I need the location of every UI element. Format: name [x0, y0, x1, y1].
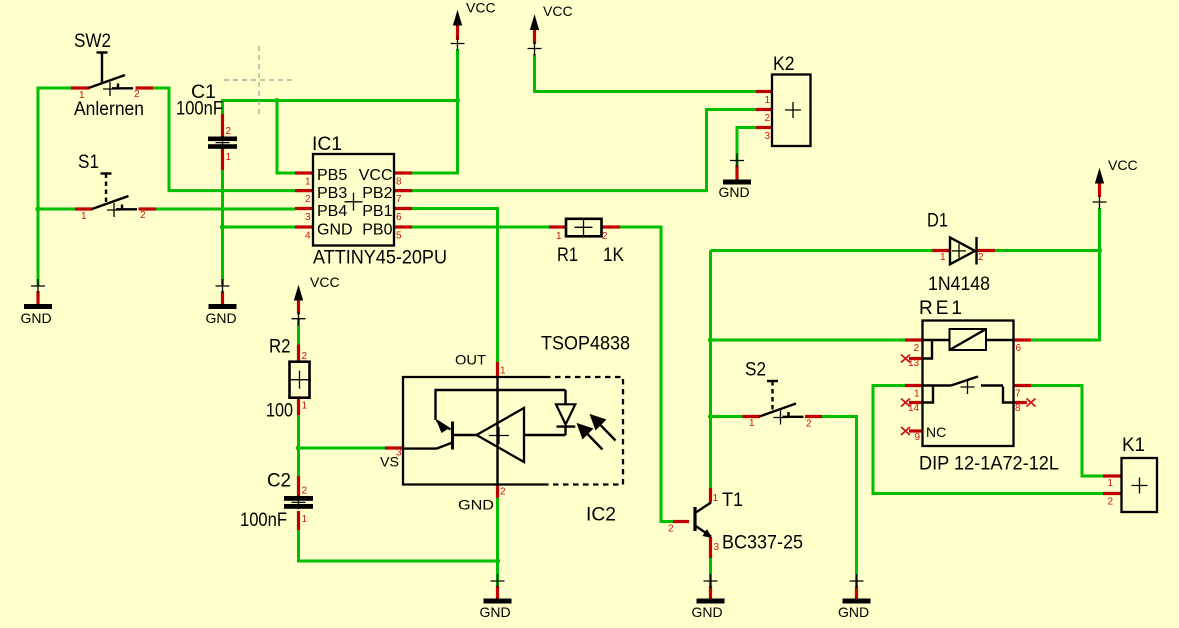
svg-text:PB3: PB3 — [317, 185, 347, 202]
svg-text:3: 3 — [764, 131, 770, 142]
node junction C2 / IC2 GND — [495, 558, 500, 563]
svg-text:GND: GND — [691, 604, 722, 620]
svg-text:1: 1 — [764, 95, 770, 106]
svg-text:D1: D1 — [927, 211, 948, 232]
svg-text:SW2: SW2 — [74, 31, 111, 52]
switch S1 pin 1 stub — [75, 207, 93, 210]
op IC1 pin 7 stub — [394, 189, 412, 192]
svg-text:100nF: 100nF — [176, 99, 223, 120]
connector K1 pin 1 stub — [1103, 474, 1122, 477]
capacitor C2 pin 1 stub — [297, 511, 300, 530]
ground GND K2 stem — [735, 165, 738, 180]
wire IC1 PB0 to R1 — [412, 226, 549, 229]
node junction C1 net / VCC column — [455, 98, 460, 103]
svg-text:NC: NC — [926, 424, 946, 440]
switch SW2 — [89, 53, 134, 97]
svg-text:PB2: PB2 — [362, 185, 392, 202]
svg-text:TSOP4838: TSOP4838 — [541, 334, 630, 355]
wire RE1 pin7 to K1 pin1 — [1031, 386, 1103, 477]
svg-text:6: 6 — [396, 212, 402, 223]
svg-text:1N4148: 1N4148 — [928, 274, 990, 295]
coil — [950, 329, 987, 350]
svg-text:VCC: VCC — [359, 167, 393, 184]
wire T1 emitter to GND — [709, 558, 712, 588]
diode D1 pin 1 stub — [933, 249, 951, 252]
svg-text:1: 1 — [500, 366, 506, 377]
svg-text:Anlernen: Anlernen — [74, 99, 144, 120]
svg-text:1: 1 — [226, 152, 232, 163]
svg-text:14: 14 — [908, 403, 920, 414]
relay RE1 pin 1 stub — [905, 384, 923, 387]
svg-text:R1: R1 — [557, 245, 578, 266]
transistor T1 emitter stub — [709, 537, 712, 558]
switch SW2 pin 1 stub — [71, 86, 90, 89]
IC2 VS pin stub — [385, 446, 403, 449]
wire VCC3 to R2 — [297, 319, 300, 345]
resistor R2 body — [290, 362, 310, 398]
svg-text:PB0: PB0 — [362, 222, 392, 239]
op IC1 pin 3 stub — [295, 207, 313, 210]
wire R1 to T1 base — [620, 227, 673, 522]
capacitor C1 pin 2 stub — [221, 114, 224, 137]
svg-text:GND: GND — [838, 604, 869, 620]
svg-text:GND: GND — [20, 310, 51, 326]
node junction C1 net / PB5 riser — [274, 98, 279, 103]
wire VCC4 to RE1 pin6 — [1031, 208, 1100, 340]
svg-text:2: 2 — [302, 486, 308, 497]
ground GND2 stem — [221, 291, 224, 304]
node junction D1 cathode / VCC4 — [1097, 248, 1102, 253]
svg-text:PB4: PB4 — [317, 203, 347, 220]
wire SW2 pin2 to IC1 PB3 — [153, 88, 295, 191]
wire RE1 pin2 branch — [711, 339, 906, 342]
wire VCC1 to IC1 VCC pin8 — [412, 49, 458, 173]
ground GND2 symbol — [209, 279, 237, 309]
svg-text:BC337-25: BC337-25 — [722, 533, 803, 554]
svg-text:C2: C2 — [267, 471, 291, 492]
IC2 GND pin stub — [496, 485, 499, 499]
wire C1 top to VCC column — [223, 101, 458, 115]
connector K2 pin 3 stub — [756, 126, 772, 129]
svg-text:S1: S1 — [78, 152, 99, 173]
wire SW2 left to GND column — [38, 88, 71, 286]
svg-text:2: 2 — [134, 89, 140, 100]
svg-text:GND: GND — [458, 497, 494, 513]
resistor R1 pin 2 stub — [602, 225, 621, 228]
svg-text:1: 1 — [914, 389, 920, 400]
switch SW2 pin 2 stub — [136, 86, 154, 89]
IC2 OUT pin stub — [496, 362, 499, 377]
svg-text:6: 6 — [1016, 343, 1022, 354]
wire IC2 GND to GND symbol — [496, 498, 499, 588]
svg-text:1: 1 — [305, 177, 311, 188]
IC2 light arrows — [577, 423, 594, 440]
VCC1 arrow — [451, 12, 465, 51]
svg-text:1: 1 — [749, 418, 755, 429]
svg-text:K1: K1 — [1122, 435, 1145, 456]
IC2 internal feedback — [436, 390, 566, 420]
ground GND IC2 stem — [496, 586, 499, 599]
relay RE1 pin 6 stub — [1014, 338, 1032, 341]
wire IC1 PB1 to IC2 OUT — [412, 209, 498, 363]
op IC1 pin 2 stub — [295, 189, 313, 192]
node junction R2/VS — [296, 445, 301, 450]
capacitor C1 — [208, 136, 237, 150]
svg-text:1: 1 — [302, 514, 308, 525]
ground GND S2 symbol — [843, 574, 871, 604]
svg-text:2: 2 — [914, 343, 920, 354]
ground GND T1 symbol — [697, 574, 725, 604]
svg-text:8: 8 — [1015, 403, 1021, 414]
IC IC1 body — [313, 154, 394, 246]
IC2 internal photodiode — [564, 390, 566, 404]
wire R2 bottom to C2 and VS — [297, 415, 300, 476]
svg-text:7: 7 — [1015, 389, 1021, 400]
wire D1 anode left — [711, 249, 933, 252]
svg-text:1: 1 — [81, 211, 87, 222]
node junction T1 collector / S2 — [708, 414, 713, 419]
svg-text:2: 2 — [764, 113, 770, 124]
svg-text:2: 2 — [1107, 497, 1113, 508]
wire S2 pin1 branch — [711, 415, 743, 418]
switch S2 pin 2 stub — [805, 415, 822, 418]
relay RE1 pin 7 stub — [1014, 384, 1032, 387]
VCC4 arrow — [1093, 170, 1107, 210]
svg-text:5: 5 — [396, 231, 402, 242]
ground GND K2 symbol — [723, 154, 751, 185]
svg-text:T1: T1 — [722, 490, 743, 511]
svg-text:2: 2 — [602, 231, 608, 242]
svg-text:2: 2 — [806, 419, 812, 430]
pin13 internal — [923, 341, 933, 359]
svg-text:OUT: OUT — [455, 352, 486, 368]
wire PB5 drop from C1 net — [277, 101, 295, 174]
svg-text:VCC: VCC — [1108, 157, 1138, 173]
svg-text:VCC: VCC — [310, 274, 340, 290]
VCC1 stem — [456, 25, 459, 40]
svg-text:IC2: IC2 — [586, 505, 616, 526]
IC2 internal amplifier triangle — [477, 408, 525, 462]
svg-text:1: 1 — [79, 90, 85, 101]
svg-text:2: 2 — [978, 252, 984, 263]
svg-text:1: 1 — [556, 231, 562, 242]
capacitor C2 pin 2 stub — [297, 476, 300, 496]
wire IC1 GND pin branch — [223, 226, 296, 229]
svg-text:PB1: PB1 — [362, 203, 392, 220]
connector K1 pin 2 stub — [1103, 492, 1122, 495]
op IC1 pin 4 stub — [295, 225, 313, 228]
svg-text:3: 3 — [396, 448, 402, 459]
switch S2 pin 1 stub — [743, 415, 761, 418]
svg-text:1: 1 — [940, 252, 946, 263]
switch S1 pin 2 stub — [139, 207, 157, 210]
svg-text:VCC: VCC — [466, 0, 496, 16]
svg-text:3: 3 — [714, 542, 720, 553]
wire S1 pin2 to IC1 PB4 — [156, 208, 295, 211]
wire IC1 PB2 to K2 pin2 — [412, 110, 756, 191]
svg-text:R2: R2 — [269, 337, 291, 358]
op IC1 pin 8 stub — [394, 171, 412, 174]
svg-text:GND: GND — [479, 604, 510, 620]
wire C1 bottom to GND — [221, 170, 224, 286]
svg-text:GND: GND — [317, 222, 353, 239]
svg-text:ATTINY45-20PU: ATTINY45-20PU — [313, 248, 447, 269]
VCC2 arrow — [528, 16, 542, 56]
wire S2 pin2 to GND — [822, 417, 857, 589]
svg-text:9: 9 — [915, 432, 921, 443]
svg-text:PB5: PB5 — [317, 167, 347, 184]
svg-text:S2: S2 — [745, 360, 766, 381]
svg-text:7: 7 — [396, 194, 402, 205]
VCC2 stem — [533, 30, 536, 45]
svg-text:2: 2 — [305, 194, 311, 205]
connector K1 body — [1122, 458, 1158, 512]
node junction C1 bottom / IC1 GND — [220, 224, 225, 229]
wire RE1 pin1 to K1 pin2 — [873, 386, 1103, 494]
connector K2 body — [772, 75, 811, 147]
resistor R1 body — [566, 219, 602, 237]
svg-text:2: 2 — [302, 351, 308, 362]
ground GND IC2 symbol — [484, 574, 512, 604]
switch S2 — [760, 381, 804, 425]
capacitor C1 pin 1 stub — [221, 149, 224, 171]
grid origin crosshair — [224, 46, 293, 115]
resistor R2 pin 1 stub — [297, 398, 300, 416]
diode D1 pin 2 stub — [977, 249, 995, 252]
svg-text:VCC: VCC — [543, 3, 573, 19]
diode D1 — [950, 237, 977, 265]
VCC4 stem — [1098, 183, 1101, 197]
svg-text:1: 1 — [713, 493, 719, 504]
VCC3 stem — [297, 300, 300, 315]
svg-text:4: 4 — [305, 231, 311, 242]
ground GND T1 stem — [709, 586, 712, 599]
ground GND1 stem — [36, 291, 39, 304]
IC IC2 TSOP body — [403, 377, 623, 485]
IC2 internal phototransistor — [451, 422, 454, 450]
svg-text:2: 2 — [500, 487, 506, 498]
op IC1 pin 1 stub — [295, 171, 313, 174]
relay RE1 pin 14 stub with X — [909, 401, 923, 404]
svg-text:IC1: IC1 — [312, 134, 342, 155]
svg-text:100: 100 — [266, 401, 293, 422]
svg-text:DIP 12-1A72-12L: DIP 12-1A72-12L — [919, 454, 1059, 475]
transistor T1 base stub — [673, 520, 689, 523]
svg-text:2: 2 — [668, 524, 674, 535]
resistor R2 pin 2 stub — [297, 345, 300, 363]
svg-text:8: 8 — [396, 177, 402, 188]
svg-text:3: 3 — [305, 212, 311, 223]
node junction T1 collector / RE1 pin2 — [708, 337, 713, 342]
wire VS branch — [299, 447, 386, 450]
svg-text:GND: GND — [718, 184, 749, 200]
wire VCC2 to K2 pin1 — [535, 54, 757, 92]
connector K2 pin 1 stub — [756, 90, 772, 93]
op IC1 pin 6 stub — [394, 207, 412, 210]
op IC1 pin 5 stub — [394, 225, 412, 228]
relay RE1 pin 9 stub with X — [909, 429, 923, 432]
resistor R1 pin 1 stub — [549, 225, 566, 228]
svg-text:2: 2 — [226, 126, 232, 137]
svg-text:1: 1 — [1107, 478, 1113, 489]
svg-text:GND: GND — [205, 310, 236, 326]
relay switch contact — [923, 384, 952, 386]
svg-text:1K: 1K — [603, 245, 624, 266]
svg-text:100nF: 100nF — [240, 510, 287, 531]
ground GND1 symbol — [24, 279, 52, 309]
svg-text:1: 1 — [302, 401, 308, 412]
svg-text:RE1: RE1 — [919, 298, 965, 319]
svg-text:2: 2 — [140, 210, 146, 221]
wire D1 cathode to VCC column — [995, 249, 1100, 252]
relay RE1 pin 2 stub — [905, 338, 923, 341]
wire C2 bottom to IC2 GND net — [299, 530, 498, 561]
switch S1 — [92, 174, 137, 218]
svg-text:13: 13 — [908, 358, 920, 369]
capacitor C2 — [284, 495, 313, 509]
wire K2 pin3 to GND — [737, 128, 756, 168]
transistor T1 collector stub — [709, 488, 712, 503]
relay RE1 body — [923, 321, 1014, 447]
VCC3 arrow — [292, 287, 306, 326]
wire T1 collector column up to D1 net — [709, 251, 712, 489]
connector K2 pin 2 stub — [756, 108, 772, 111]
wire S1 pin1 branch — [38, 208, 75, 211]
svg-text:K2: K2 — [773, 54, 795, 75]
IC2 internal OUT line — [496, 377, 498, 485]
transistor T1 — [695, 503, 712, 539]
node junction S1/GND column — [35, 206, 40, 211]
relay RE1 pin 8 stub with X — [1014, 401, 1028, 404]
relay RE1 pin 13 stub with X — [909, 357, 923, 360]
ground GND S2 stem — [855, 586, 858, 599]
